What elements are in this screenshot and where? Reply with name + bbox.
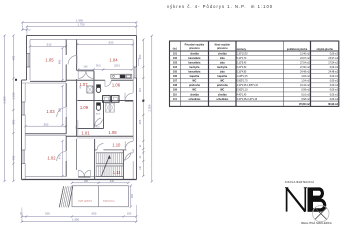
svg-text:480: 480 [58, 59, 62, 64]
svg-text:1.08: 1.08 [108, 130, 117, 135]
svg-text:465: 465 [138, 119, 142, 124]
svg-text:2.050: 2.050 [3, 96, 7, 103]
svg-text:27,54 m2: 27,54 m2 [328, 62, 338, 64]
svg-text:4,40*4,05-1,905*1,10: 4,40*4,05-1,905*1,10 [237, 85, 259, 87]
svg-text:schodisko: schodisko [188, 98, 201, 101]
svg-text:chodba: chodba [218, 93, 227, 96]
svg-text:510: 510 [47, 42, 52, 46]
svg-text:WC: WC [192, 80, 196, 83]
svg-text:5,10*5,40: 5,10*5,40 [237, 62, 247, 64]
svg-text:180: 180 [84, 180, 89, 183]
svg-text:6,16 m2: 6,16 m2 [301, 94, 310, 96]
svg-text:495: 495 [11, 55, 15, 60]
svg-text:23,97 m2: 23,97 m2 [300, 58, 310, 60]
svg-text:1.05: 1.05 [45, 57, 54, 62]
svg-text:kancelária: kancelária [188, 61, 201, 64]
svg-text:izba: izba [220, 57, 225, 60]
svg-text:105: 105 [173, 71, 178, 74]
svg-text:priestoru: priestoru [189, 47, 200, 50]
svg-text:115: 115 [138, 87, 142, 92]
svg-text:NIKOLA BARTEKOVÁ: NIKOLA BARTEKOVÁ [285, 180, 314, 184]
svg-text:23,97 m2: 23,97 m2 [328, 58, 338, 60]
svg-text:140: 140 [84, 66, 89, 69]
svg-text:150: 150 [127, 211, 132, 215]
svg-text:470: 470 [58, 154, 62, 159]
svg-text:6,20*4,50: 6,20*4,50 [237, 67, 247, 69]
svg-text:160: 160 [131, 193, 134, 198]
svg-text:5,10*4,80: 5,10*4,80 [237, 72, 247, 74]
svg-text:24,48 m2: 24,48 m2 [328, 72, 338, 74]
svg-text:24,48 m2: 24,48 m2 [300, 72, 310, 74]
svg-text:izba: izba [220, 71, 225, 74]
svg-text:kancelária: kancelária [188, 57, 201, 60]
svg-text:440: 440 [110, 180, 115, 183]
svg-text:4,83 m2: 4,83 m2 [301, 76, 310, 78]
svg-text:obytná plocha: obytná plocha [317, 48, 334, 51]
svg-text:WC: WC [220, 80, 224, 83]
svg-text:9,58 m2: 9,58 m2 [301, 99, 310, 101]
svg-text:27,90 m2: 27,90 m2 [300, 67, 310, 69]
svg-text:1.06: 1.06 [112, 83, 121, 88]
svg-text:0,00 m2: 0,00 m2 [330, 67, 339, 69]
svg-text:chodba: chodba [218, 52, 227, 55]
svg-text:990: 990 [11, 119, 15, 124]
svg-text:80,93 m2: 80,93 m2 [328, 104, 338, 106]
svg-text:495: 495 [11, 155, 15, 160]
svg-text:1.010: 1.010 [11, 92, 15, 99]
svg-text:4,40*1,40: 4,40*1,40 [237, 94, 247, 96]
svg-text:170,80 m2: 170,80 m2 [299, 104, 311, 106]
svg-text:1,30*10,30: 1,30*10,30 [237, 53, 249, 55]
svg-text:čísl.: čísl. [173, 48, 178, 51]
svg-text:kuchyňa: kuchyňa [189, 66, 200, 69]
svg-text:0,905*1,70: 0,905*1,70 [237, 81, 249, 83]
svg-text:90,5: 90,5 [96, 65, 101, 68]
svg-text:620: 620 [109, 41, 114, 45]
svg-text:13,40 m2: 13,40 m2 [300, 53, 310, 55]
svg-text:4,40*2,05+0,40*1,40: 4,40*2,05+0,40*1,40 [237, 99, 258, 101]
svg-text:1.900: 1.900 [72, 217, 79, 221]
svg-text:111: 111 [173, 98, 177, 101]
svg-text:práčovňa: práčovňa [189, 84, 200, 87]
svg-text:výkres č. 4- Pôdorys 1. N.P.: výkres č. 4- Pôdorys 1. N.P. m 1:100 [167, 4, 273, 9]
svg-text:0,99 m2: 0,99 m2 [301, 90, 310, 92]
svg-text:2.050: 2.050 [147, 104, 151, 111]
svg-text:0,00 m2: 0,00 m2 [330, 90, 339, 92]
svg-text:1.01: 1.01 [81, 131, 90, 136]
svg-text:0,00 m2: 0,00 m2 [330, 99, 339, 101]
svg-text:16,42 m2: 16,42 m2 [300, 85, 310, 87]
svg-text:107: 107 [173, 80, 178, 83]
svg-text:1.11: 1.11 [113, 170, 122, 175]
svg-text:2,245*2,15: 2,245*2,15 [237, 76, 249, 78]
svg-text:Pôvodné využitie: Pôvodné využitie [185, 43, 205, 46]
svg-text:600: 600 [92, 211, 97, 215]
svg-text:27,54 m2: 27,54 m2 [300, 62, 310, 64]
svg-text:Nové využitie: Nové využitie [215, 43, 231, 46]
svg-text:0,00 m2: 0,00 m2 [330, 94, 339, 96]
svg-text:chodba: chodba [190, 52, 199, 55]
svg-text:schodisko: schodisko [216, 98, 229, 101]
svg-text:101: 101 [173, 52, 178, 55]
svg-text:102: 102 [173, 57, 178, 60]
svg-text:103: 103 [173, 61, 178, 64]
svg-text:chodba: chodba [190, 93, 199, 96]
svg-text:109: 109 [173, 89, 178, 92]
svg-text:500: 500 [45, 211, 50, 215]
svg-text:0,00 m2: 0,00 m2 [330, 53, 339, 55]
svg-text:110: 110 [173, 93, 178, 96]
svg-text:kúpeľňa: kúpeľňa [218, 75, 228, 78]
svg-text:kancelária: kancelária [188, 71, 201, 74]
svg-text:0,00 m2: 0,00 m2 [330, 85, 339, 87]
svg-text:104: 104 [173, 66, 178, 69]
svg-text:1,54 m2: 1,54 m2 [301, 81, 310, 83]
svg-text:1.10: 1.10 [112, 142, 121, 147]
svg-text:108: 108 [173, 84, 178, 87]
svg-text:1.07: 1.07 [79, 82, 88, 87]
svg-text:560: 560 [44, 122, 49, 126]
svg-text:329,5: 329,5 [114, 65, 121, 68]
svg-text:podlahová plocha: podlahová plocha [287, 48, 308, 51]
svg-text:WC: WC [192, 89, 196, 92]
svg-text:WC: WC [220, 89, 224, 92]
svg-text:kúpeľňa: kúpeľňa [190, 75, 200, 78]
svg-text:0,00 m2: 0,00 m2 [330, 76, 339, 78]
svg-text:krytá terasa: krytá terasa [103, 199, 115, 202]
svg-text:kuchyňa: kuchyňa [217, 66, 228, 69]
svg-text:rozmery: rozmery [237, 48, 247, 51]
svg-text:5,10*4,70: 5,10*4,70 [237, 58, 247, 60]
svg-text:106: 106 [173, 75, 178, 78]
svg-text:1.03: 1.03 [46, 109, 55, 114]
svg-text:1.09: 1.09 [80, 105, 89, 110]
svg-text:kryté zádverie: kryté zádverie [78, 199, 92, 202]
svg-text:0,00 m2: 0,00 m2 [330, 81, 339, 83]
svg-text:1.02: 1.02 [47, 155, 56, 160]
svg-text:izba: izba [220, 61, 225, 64]
svg-text:priestoru: priestoru [217, 47, 228, 50]
svg-text:1.04: 1.04 [109, 57, 118, 62]
svg-text:1.750: 1.750 [78, 23, 85, 27]
svg-text:0,905*1,10: 0,905*1,10 [237, 90, 249, 92]
svg-text:práčovňa: práčovňa [217, 84, 228, 87]
